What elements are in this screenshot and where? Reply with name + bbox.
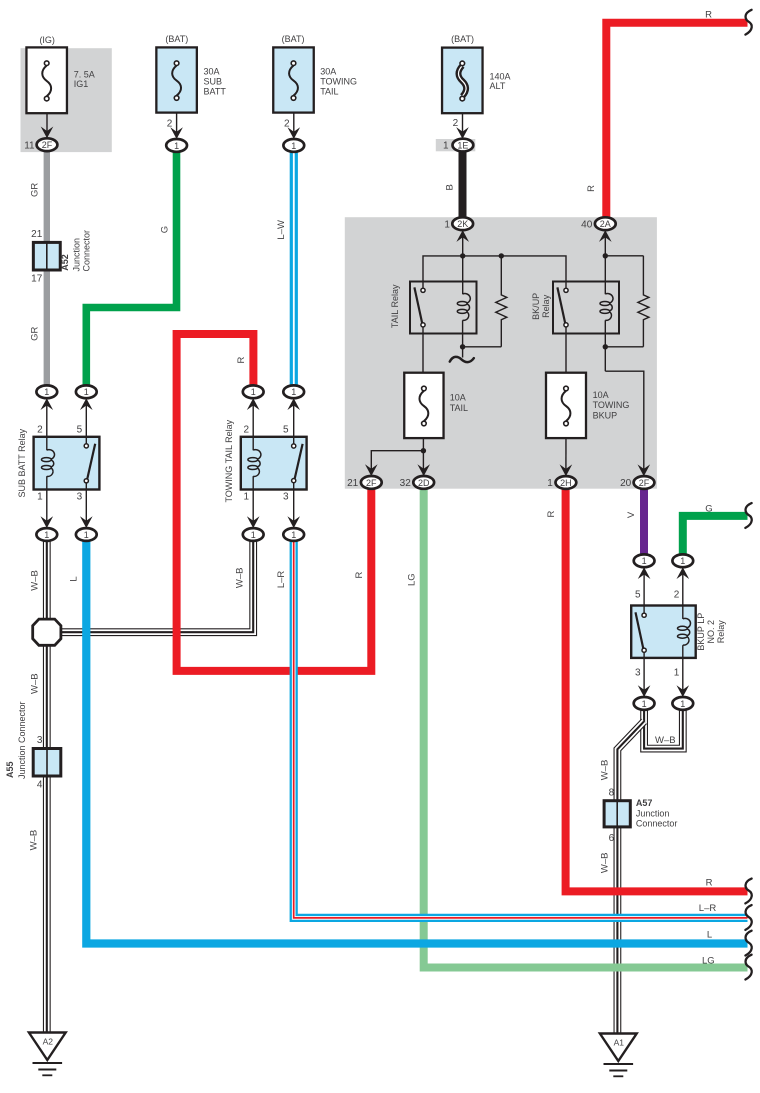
BKUP LP relay pin 1 lead bbox=[682, 645, 684, 697]
svg-text:30A: 30A bbox=[204, 66, 220, 76]
svg-text:20: 20 bbox=[620, 478, 632, 489]
svg-text:21: 21 bbox=[31, 229, 43, 240]
svg-text:NO. 2: NO. 2 bbox=[706, 620, 716, 644]
arrow into connector below SUB BATT pin 3 bbox=[80, 516, 93, 528]
wire node 2K to TAIL relay coil bbox=[462, 233, 464, 294]
svg-text:R: R bbox=[586, 185, 597, 192]
svg-text:1: 1 bbox=[244, 492, 250, 503]
svg-text:L–R: L–R bbox=[276, 571, 287, 589]
10A TAIL fuse to branch node bbox=[422, 424, 424, 451]
svg-text:LG: LG bbox=[406, 573, 417, 586]
connector 1 above TOWING TAIL pin 2 bbox=[243, 385, 264, 398]
TOWING TAIL relay pin 1 lead bbox=[252, 476, 254, 528]
lead from SUB BATT fuse to connector 1 bbox=[176, 113, 178, 139]
svg-text:TOWING: TOWING bbox=[593, 400, 630, 410]
svg-text:10A: 10A bbox=[593, 390, 609, 400]
BK-UP relay switch to 10A TOWING BKUP fuse bbox=[565, 327, 567, 387]
svg-text:10A: 10A bbox=[450, 393, 466, 403]
svg-text:2A: 2A bbox=[600, 219, 611, 229]
svg-text:W–B: W–B bbox=[29, 830, 40, 851]
wire R from right edge to connector 2A bbox=[606, 23, 747, 218]
resistor of BK-UP relay bbox=[638, 256, 649, 347]
BKUP LP relay pin 5 lead bbox=[643, 567, 645, 613]
wire-break under TAIL relay coil bbox=[450, 357, 474, 362]
svg-text:1: 1 bbox=[674, 668, 680, 679]
svg-text:L: L bbox=[707, 930, 712, 941]
svg-text:1: 1 bbox=[44, 387, 49, 397]
svg-text:6: 6 bbox=[609, 833, 615, 844]
svg-text:5: 5 bbox=[283, 424, 289, 435]
wire G from right edge to BKUP LP relay pin 2 bbox=[683, 516, 748, 555]
BKUP LP NO.2 relay box bbox=[631, 606, 696, 658]
10A TOWING BKUP fuse to connector 2H bbox=[565, 424, 567, 476]
junction dot TAIL resistor top bbox=[499, 253, 504, 258]
svg-text:3: 3 bbox=[283, 492, 289, 503]
svg-text:1: 1 bbox=[84, 530, 89, 540]
BKUP LP relay pin 2 lead bbox=[682, 567, 684, 619]
fusible link 140A ALT bbox=[442, 48, 483, 114]
BKUP LP relay switch bbox=[642, 613, 646, 617]
wire L-R from TOWING TAIL relay pin 3 to right edge bbox=[294, 541, 748, 918]
SUB BATT relay pin 2 lead bbox=[46, 398, 48, 450]
arrow into 2D bbox=[417, 464, 430, 476]
svg-text:SUB: SUB bbox=[204, 76, 223, 86]
junction dot 2A bbox=[603, 253, 608, 258]
arrow into 2F(20) bbox=[638, 464, 651, 476]
arrow into connector below TOWING TAIL pin 3 bbox=[287, 516, 300, 528]
connector 1 above TOWING TAIL pin 5 bbox=[283, 385, 304, 398]
connector 1 below TOWING TAIL pin 1 bbox=[243, 528, 264, 541]
arrow into connector 1 (TOWING TAIL) bbox=[288, 127, 301, 139]
bus from TAIL relay switch to BK-UP relay switch bbox=[423, 256, 566, 288]
svg-text:Relay: Relay bbox=[716, 620, 726, 644]
svg-text:R: R bbox=[546, 510, 557, 517]
wire LG from connector 2D to right edge bbox=[424, 489, 748, 968]
BK-UP relay coil bbox=[605, 294, 613, 303]
svg-text:A2: A2 bbox=[43, 1036, 54, 1046]
break symbol R top right bbox=[745, 10, 751, 35]
svg-text:2F: 2F bbox=[366, 478, 377, 488]
svg-text:2: 2 bbox=[284, 118, 290, 129]
wire R from connector 2H to right edge bbox=[566, 489, 748, 892]
svg-text:3: 3 bbox=[37, 735, 43, 746]
svg-text:(BAT): (BAT) bbox=[165, 34, 188, 44]
TOWING TAIL relay pin 3 lead bbox=[293, 483, 295, 528]
svg-text:R: R bbox=[236, 356, 247, 363]
svg-text:11: 11 bbox=[24, 141, 35, 152]
lead from ALT fuse to connector 1E bbox=[462, 113, 464, 138]
SUB BATT relay switch bbox=[84, 444, 88, 448]
svg-text:2D: 2D bbox=[418, 478, 430, 488]
BKUP LP relay coil bbox=[683, 618, 691, 627]
connector 2K bbox=[452, 217, 473, 230]
svg-text:1: 1 bbox=[251, 387, 256, 397]
connector 2F(21) bbox=[361, 476, 382, 489]
svg-text:5: 5 bbox=[77, 424, 83, 435]
svg-text:1: 1 bbox=[680, 699, 685, 709]
svg-text:2F: 2F bbox=[42, 140, 53, 150]
SUB BATT relay pin 1 lead bbox=[46, 476, 48, 528]
svg-text:L–R: L–R bbox=[699, 903, 717, 914]
ground A2 bbox=[29, 1033, 66, 1061]
BKUP LP relay internal leads bbox=[643, 606, 645, 614]
svg-text:TAIL: TAIL bbox=[320, 86, 338, 96]
svg-text:2: 2 bbox=[167, 118, 173, 129]
connector 2F (IG) bbox=[37, 138, 58, 151]
svg-text:5: 5 bbox=[635, 589, 641, 600]
junction dot TAIL coil bottom bbox=[460, 344, 465, 349]
connector 1 above SUB BATT pin 2 bbox=[36, 385, 57, 398]
svg-text:1: 1 bbox=[642, 699, 647, 709]
TAIL relay coil bottom junction to resistor bottom bbox=[462, 320, 464, 357]
connector 2F(20) bbox=[634, 476, 655, 489]
arrow into connector below SUB BATT pin 1 bbox=[41, 516, 54, 528]
svg-text:Junction: Junction bbox=[636, 809, 670, 819]
TOWING TAIL relay pin 2 lead bbox=[252, 398, 254, 450]
svg-text:B: B bbox=[444, 184, 455, 190]
svg-text:1: 1 bbox=[84, 387, 89, 397]
svg-text:2: 2 bbox=[674, 589, 680, 600]
svg-text:BATT: BATT bbox=[204, 86, 227, 96]
svg-text:W–B: W–B bbox=[30, 673, 41, 694]
svg-text:IG1: IG1 bbox=[74, 79, 89, 89]
SUB BATT relay box bbox=[34, 437, 100, 490]
arrow into connector above SUB BATT pin 2 bbox=[41, 398, 54, 410]
BK-UP relay coil bottom junction wiring bbox=[604, 320, 606, 371]
arrow into 2F(21) bbox=[365, 464, 378, 476]
wire W-B from SUB BATT relay pin 1 to ground A2 bbox=[43, 541, 51, 1033]
arrow into connector below BKUP LP pin 3 bbox=[638, 685, 651, 697]
arrow into connector below BKUP LP pin 1 bbox=[677, 685, 690, 697]
octagon splice junction bbox=[33, 619, 61, 645]
BKUP LP relay pin 3 lead bbox=[643, 652, 645, 697]
wire W-B from TOWING TAIL relay pin 1 to octagon junction bbox=[60, 541, 253, 632]
connector 1 (TOWING TAIL fuse) bbox=[283, 139, 304, 152]
svg-text:W–B: W–B bbox=[600, 853, 611, 874]
wire V from connector 2F(20) to BKUP LP relay pin 5 bbox=[640, 489, 648, 555]
TOWING TAIL relay switch bbox=[292, 444, 296, 448]
wire B from connector 1E to connector 2K bbox=[459, 151, 467, 217]
svg-text:BK/UP: BK/UP bbox=[531, 293, 541, 320]
arrow into connector 1 (SUB BATT) bbox=[170, 127, 183, 139]
svg-text:W–B: W–B bbox=[655, 735, 676, 746]
svg-text:R: R bbox=[354, 571, 365, 578]
wire W-B U-link under BKUP LP NO.2 relay bbox=[644, 709, 683, 749]
svg-text:A55: A55 bbox=[5, 761, 15, 778]
arrow into connector 1E bbox=[456, 127, 469, 139]
svg-text:2: 2 bbox=[453, 118, 459, 129]
lead 2A junction to BK-UP resistor bbox=[605, 255, 643, 257]
wire G from 30A SUB BATT fuse to SUB BATT relay pin 5 bbox=[86, 152, 176, 386]
junction dot 2K bus bbox=[460, 253, 465, 258]
junction connector A52 bbox=[33, 242, 60, 270]
connector 1E bbox=[453, 139, 474, 152]
svg-text:Relay: Relay bbox=[541, 294, 551, 318]
arrow into connector above BKUP LP pin 2 bbox=[677, 567, 690, 579]
resistor of TAIL relay bbox=[496, 256, 507, 347]
connector 2H bbox=[556, 476, 577, 489]
junction dot 10A TAIL branch bbox=[421, 448, 426, 453]
relay integration panel background bbox=[345, 217, 657, 489]
svg-text:L: L bbox=[69, 576, 80, 581]
svg-text:2: 2 bbox=[244, 424, 250, 435]
SUB BATT relay pin 5 lead bbox=[85, 398, 87, 444]
svg-text:4: 4 bbox=[37, 779, 43, 790]
connector 1 below SUB BATT pin 1 bbox=[36, 528, 57, 541]
svg-text:TOWING TAIL Relay: TOWING TAIL Relay bbox=[224, 419, 234, 502]
break symbol R right bbox=[745, 879, 751, 904]
svg-text:A1: A1 bbox=[614, 1037, 625, 1047]
junction connector A57 bbox=[604, 801, 630, 827]
svg-text:BKUP: BKUP bbox=[593, 411, 618, 421]
connector 1 below SUB BATT pin 3 bbox=[76, 528, 97, 541]
TOWING TAIL relay pin 5 lead bbox=[293, 398, 295, 444]
svg-text:L–W: L–W bbox=[276, 220, 287, 240]
connector 1 below BKUP LP pin 3 bbox=[634, 697, 655, 710]
svg-text:G: G bbox=[159, 226, 170, 233]
svg-text:W–B: W–B bbox=[30, 570, 41, 591]
svg-text:2K: 2K bbox=[457, 219, 468, 229]
svg-text:BKUP LP: BKUP LP bbox=[696, 613, 706, 651]
svg-text:2: 2 bbox=[37, 424, 43, 435]
TOWING TAIL relay box bbox=[241, 437, 307, 490]
svg-text:1: 1 bbox=[642, 556, 647, 566]
svg-text:30A: 30A bbox=[320, 66, 336, 76]
connector 1 below BKUP LP pin 1 bbox=[672, 697, 693, 710]
svg-text:21: 21 bbox=[347, 478, 359, 489]
IG fuse panel background bbox=[21, 48, 112, 152]
svg-text:W–B: W–B bbox=[234, 568, 245, 589]
lead 2A to BK-UP relay coil bbox=[604, 233, 606, 294]
TAIL relay box bbox=[410, 282, 477, 334]
svg-text:1: 1 bbox=[174, 141, 179, 151]
break symbol L-R right bbox=[745, 905, 751, 930]
fuse 30A TOWING TAIL bbox=[273, 47, 314, 112]
svg-text:ALT: ALT bbox=[490, 81, 506, 91]
1E connector gray band bbox=[436, 139, 476, 151]
arrow into connector above TOWING TAIL pin 2 bbox=[247, 398, 260, 410]
svg-text:1: 1 bbox=[680, 556, 685, 566]
wire R from connector 2F(21) to TOWING TAIL relay pin 2 bbox=[177, 334, 372, 671]
svg-text:7. 5A: 7. 5A bbox=[74, 70, 95, 80]
fuse 7.5A IG1 bbox=[26, 47, 66, 113]
wire GR from IG fuse 2F to SUB BATT relay pin 2 bbox=[44, 151, 50, 385]
svg-text:R: R bbox=[705, 10, 712, 21]
svg-text:1: 1 bbox=[44, 530, 49, 540]
connector 2D bbox=[413, 476, 434, 489]
break symbol G right bbox=[745, 503, 751, 528]
branch to connector 2D bbox=[422, 451, 424, 476]
svg-text:A52: A52 bbox=[60, 254, 70, 271]
svg-text:17: 17 bbox=[31, 274, 43, 285]
connector 1 below TOWING TAIL pin 3 bbox=[283, 528, 304, 541]
svg-text:32: 32 bbox=[400, 478, 412, 489]
svg-text:(IG): (IG) bbox=[39, 35, 55, 45]
arrow into connector below TOWING TAIL pin 1 bbox=[247, 516, 260, 528]
svg-text:3: 3 bbox=[77, 492, 83, 503]
fuse 10A TOWING BKUP bbox=[546, 373, 586, 438]
svg-text:1: 1 bbox=[291, 387, 296, 397]
wire L-W from 30A TOWING TAIL fuse to TOWING TAIL relay pin 5 bbox=[290, 152, 298, 386]
BK-UP relay box bbox=[553, 282, 619, 334]
svg-text:2H: 2H bbox=[560, 478, 572, 488]
BK-UP relay switch bbox=[564, 288, 568, 292]
svg-text:Junction: Junction bbox=[71, 238, 81, 272]
ground A1 bbox=[600, 1034, 637, 1062]
arrow into connector above BKUP LP pin 5 bbox=[638, 567, 651, 579]
svg-text:1: 1 bbox=[37, 492, 43, 503]
svg-text:TOWING: TOWING bbox=[320, 76, 357, 86]
svg-text:(BAT): (BAT) bbox=[282, 34, 305, 44]
TAIL relay switch to 10A TAIL fuse bbox=[422, 327, 424, 387]
svg-text:1: 1 bbox=[547, 478, 553, 489]
SUB BATT relay coil bbox=[47, 450, 55, 459]
svg-text:SUB BATT Relay: SUB BATT Relay bbox=[17, 428, 27, 497]
SUB BATT relay internal leads bbox=[46, 437, 48, 451]
svg-text:TAIL: TAIL bbox=[450, 403, 468, 413]
connector 1 (SUB BATT fuse) bbox=[166, 139, 187, 152]
svg-text:LG: LG bbox=[702, 955, 715, 966]
arrow into 2A bbox=[599, 230, 612, 242]
svg-text:A57: A57 bbox=[636, 798, 653, 808]
arrow into connector above TOWING TAIL pin 5 bbox=[287, 398, 300, 410]
arrow into 2F bbox=[41, 127, 54, 139]
svg-text:40: 40 bbox=[581, 219, 593, 230]
junction connector A55 bbox=[33, 749, 61, 777]
svg-text:1E: 1E bbox=[457, 141, 468, 151]
svg-text:1: 1 bbox=[291, 530, 296, 540]
svg-text:140A: 140A bbox=[490, 72, 511, 82]
wire L from SUB BATT relay pin 3 to right edge bbox=[86, 541, 747, 944]
svg-text:GR: GR bbox=[30, 183, 41, 197]
svg-text:TAIL Relay: TAIL Relay bbox=[390, 284, 400, 328]
svg-text:1: 1 bbox=[444, 219, 450, 230]
svg-text:8: 8 bbox=[609, 787, 615, 798]
svg-text:GR: GR bbox=[30, 326, 41, 340]
break symbol LG right bbox=[745, 955, 751, 980]
svg-text:(BAT): (BAT) bbox=[451, 34, 474, 44]
svg-text:Junction Connector: Junction Connector bbox=[17, 701, 27, 779]
arrow into 2K bbox=[456, 230, 469, 242]
svg-text:1: 1 bbox=[251, 530, 256, 540]
svg-text:1: 1 bbox=[291, 141, 296, 151]
arrow into 2H bbox=[560, 464, 573, 476]
svg-text:3: 3 bbox=[635, 668, 641, 679]
fuse 10A TAIL bbox=[404, 373, 443, 438]
branch to connector 2F(21) bbox=[371, 451, 423, 476]
break symbol L right bbox=[745, 931, 751, 956]
svg-text:1: 1 bbox=[443, 141, 449, 152]
wire W-B from BKUP LP relay to ground A1 via A57 bbox=[617, 721, 644, 1033]
lead from TOWING TAIL fuse to connector 1 bbox=[293, 113, 295, 139]
svg-text:R: R bbox=[706, 877, 713, 888]
svg-text:2F: 2F bbox=[639, 478, 650, 488]
connector 1 above SUB BATT pin 5 bbox=[76, 385, 97, 398]
TAIL relay switch bbox=[421, 288, 425, 292]
junction dot BK-UP coil bottom bbox=[603, 344, 608, 349]
TAIL relay coil bbox=[463, 294, 471, 303]
connector 1 above BKUP LP pin 5 bbox=[634, 554, 655, 567]
TOWING TAIL relay internal leads bbox=[252, 437, 254, 451]
svg-text:W–B: W–B bbox=[600, 760, 611, 781]
svg-text:Connector: Connector bbox=[636, 819, 678, 829]
svg-text:G: G bbox=[705, 503, 712, 514]
TOWING TAIL relay coil bbox=[253, 450, 261, 459]
svg-text:V: V bbox=[626, 511, 637, 518]
lead from IG fuse to connector 2F bbox=[46, 113, 48, 137]
connector 2A bbox=[595, 217, 616, 230]
connector 1 above BKUP LP pin 2 bbox=[672, 554, 693, 567]
svg-text:Connector: Connector bbox=[81, 230, 91, 272]
SUB BATT relay pin 3 lead bbox=[85, 483, 87, 528]
arrow into connector above SUB BATT pin 5 bbox=[80, 398, 93, 410]
fuse 30A SUB BATT bbox=[156, 47, 197, 112]
